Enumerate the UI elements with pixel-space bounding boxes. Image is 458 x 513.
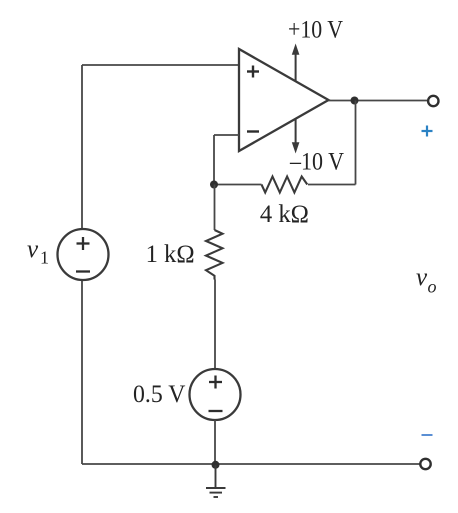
- op-amp minus input sign: [247, 130, 259, 132]
- svg-text:4 kΩ: 4 kΩ: [260, 201, 309, 228]
- ground symbol: [206, 465, 226, 497]
- svg-text:+10 V: +10 V: [288, 16, 343, 43]
- resistor R2 4k zigzag: [262, 177, 308, 193]
- wire: 1k resistor to 0.5V source: [214, 280, 216, 370]
- svg-text:o: o: [428, 277, 437, 297]
- node: ground junction dot: [212, 461, 220, 469]
- negative supply arrow -10V: [292, 119, 300, 154]
- wire: feedback drop from output dot: [355, 101, 357, 185]
- svg-text:0.5 V: 0.5 V: [133, 381, 185, 408]
- terminal: bottom - terminal: [420, 459, 430, 469]
- label blue minus: [422, 434, 433, 436]
- wire: inverting input riser: [213, 135, 215, 185]
- V1 minus sign: [76, 270, 90, 272]
- svg-text:v: v: [27, 236, 39, 263]
- V2 plus sign: [209, 376, 222, 389]
- wire: left vertical v1 branch: [81, 65, 83, 229]
- wire: feedback horizontal right segment: [308, 184, 356, 186]
- wire: +input top wire from v1 to op-amp: [82, 64, 239, 66]
- svg-text:–10 V: –10 V: [289, 149, 344, 176]
- wire: left vertical below v1: [81, 280, 83, 464]
- resistor R1 1k zigzag: [206, 230, 223, 280]
- source V1 circle: [58, 229, 109, 280]
- wire: junction to 1k resistor: [214, 185, 216, 231]
- svg-text:1 kΩ: 1 kΩ: [146, 241, 195, 268]
- source V2 0.5V circle: [190, 369, 241, 420]
- V1 plus sign: [77, 237, 90, 250]
- svg-text:1: 1: [40, 247, 49, 267]
- V2 minus sign: [209, 410, 223, 412]
- wire: inverting input horizontal: [214, 134, 239, 136]
- terminal: output + terminal: [428, 96, 438, 106]
- node: output junction dot: [351, 97, 359, 105]
- op-amp U1 triangle: [239, 49, 329, 151]
- wire: 0.5V source to ground bus: [214, 420, 216, 465]
- wire: output from apex to terminal: [329, 100, 428, 102]
- wire: bottom ground bus: [82, 463, 420, 465]
- svg-text:v: v: [416, 264, 428, 291]
- node: feedback junction dot: [210, 181, 218, 189]
- label blue plus: [422, 126, 433, 137]
- positive supply arrow +10V: [292, 44, 300, 81]
- wire: feedback horizontal left segment: [214, 184, 262, 186]
- op-amp plus input sign: [247, 66, 259, 78]
